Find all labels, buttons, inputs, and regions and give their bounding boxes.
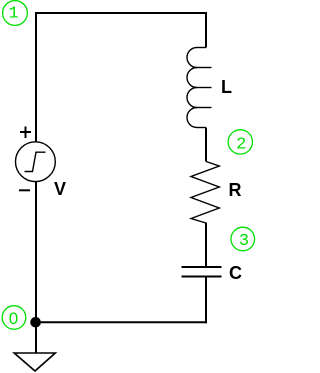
capacitor C [182, 267, 222, 277]
wire left vertical upper (node 1 to V source top) [35, 12, 37, 142]
junction dot at node 0 [30, 317, 41, 328]
voltage source V [16, 142, 56, 182]
ground [14, 353, 55, 371]
svg-text:L: L [221, 77, 232, 97]
svg-text:0: 0 [9, 309, 18, 328]
svg-text:R: R [229, 180, 242, 200]
plus sign of V [20, 127, 31, 139]
inductor L [187, 48, 212, 128]
minus sign of V [19, 189, 30, 191]
wire right vertical lower (capacitor to bottom wire) [205, 276, 207, 323]
wire right vertical (resistor to capacitor) [205, 223, 207, 268]
resistor R [191, 162, 219, 224]
wire right vertical upper (top corner to inductor) [205, 12, 207, 48]
node 0 [2, 306, 26, 330]
svg-text:1: 1 [9, 5, 19, 24]
node 1 [3, 1, 28, 26]
wire bottom horizontal [35, 321, 207, 323]
svg-text:3: 3 [239, 232, 249, 251]
wire left vertical lower (V source bottom to ground) [35, 182, 37, 354]
svg-text:V: V [54, 179, 66, 199]
svg-text:2: 2 [236, 136, 246, 155]
wire top horizontal from node 1 to right branch [35, 12, 207, 14]
svg-text:C: C [229, 263, 242, 283]
wire right vertical (inductor to resistor) [205, 128, 207, 162]
node 2 [228, 130, 252, 155]
node 3 [231, 227, 255, 251]
